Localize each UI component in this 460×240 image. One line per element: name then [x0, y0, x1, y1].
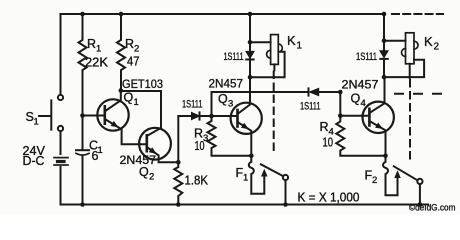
wire Q4 base column [339, 92, 341, 116]
svg-text:1: 1 [297, 41, 303, 52]
svg-text:Q: Q [139, 165, 149, 179]
wire C1 to bottom rail [82, 156, 84, 205]
transistor Q4 [363, 102, 394, 133]
wire top rail [61, 13, 385, 15]
node Q4 base [338, 113, 343, 118]
emitter arrows [111, 121, 385, 157]
svg-text:1S111: 1S111 [300, 101, 321, 113]
node K2 top [382, 12, 387, 17]
resistor R4 [336, 116, 385, 156]
svg-text:1: 1 [96, 44, 101, 55]
transistor Q1 [97, 99, 128, 130]
switch S1 [58, 95, 63, 100]
transistor Q2 [139, 128, 171, 160]
svg-text:K: K [424, 34, 433, 49]
svg-text:Q: Q [218, 92, 228, 106]
svg-text:1: 1 [243, 173, 248, 184]
node K1 top [248, 12, 253, 17]
wire Q4 emitter [369, 121, 385, 156]
wire Q4 collector [369, 77, 384, 113]
node Q1 collector [119, 88, 124, 93]
svg-text:2: 2 [149, 172, 154, 183]
node Q4 emitter [383, 153, 388, 158]
node K2 coil top [382, 38, 387, 43]
contact F1 [249, 156, 264, 194]
node 1.8K bottom [176, 202, 181, 207]
svg-text:Q: Q [124, 91, 134, 105]
node C1 bottom [80, 202, 85, 207]
svg-text:R: R [125, 37, 134, 51]
svg-text:©deIdG.com: ©deIdG.com [409, 202, 456, 212]
svg-text:R: R [320, 120, 329, 134]
wire Q3 collector [238, 77, 251, 114]
node CR3 right [338, 90, 343, 95]
wire Q1 emitter [105, 119, 147, 144]
dashed linkage extension right [395, 93, 441, 95]
relay K2 plunger stub [409, 64, 411, 78]
wire top rail dashed extension [392, 13, 443, 15]
diode CR1 1S111 [192, 112, 200, 119]
wire Q1 base lead [83, 115, 105, 117]
node R3 base [209, 114, 214, 119]
relay K1 plunger stub [273, 64, 275, 70]
wire R3 node to Q3 base [212, 115, 238, 117]
contact F2 [383, 156, 397, 196]
capacitor C1 [76, 149, 89, 151]
node F1 bottom [283, 202, 288, 207]
node K1 coil bottom [248, 75, 253, 80]
wire collector node to Q2 collector [121, 91, 161, 136]
svg-text:1: 1 [34, 117, 39, 128]
node Q3 emitter [249, 153, 254, 158]
wire K2 column to top rail [383, 14, 385, 41]
relay K2 coil [384, 40, 406, 42]
wire R4 node to Q4 base [340, 115, 369, 117]
dashed mechanical link K1 to F1 [273, 72, 275, 153]
wire left branch upper [60, 14, 62, 95]
arrow Q4 emitter [375, 123, 384, 132]
svg-text:1: 1 [134, 97, 139, 108]
transistor Q3 [231, 103, 262, 134]
wire interstage Q3 base to CR3 [212, 92, 309, 116]
svg-text:K = X 1,000: K = X 1,000 [298, 191, 360, 205]
svg-text:3: 3 [228, 99, 233, 110]
wire emitter node up to diode [178, 116, 191, 162]
node R2 top [119, 12, 124, 17]
svg-text:6: 6 [92, 149, 99, 163]
svg-text:R: R [87, 37, 96, 51]
wire K1 column to top rail [249, 14, 251, 42]
wire Q3 emitter [238, 122, 252, 156]
svg-text:2: 2 [372, 175, 377, 186]
svg-text:2N457: 2N457 [342, 78, 379, 92]
svg-text:1.8K: 1.8K [185, 174, 209, 188]
arrow Q3 emitter [241, 123, 251, 132]
relay K1 coil [250, 41, 271, 43]
diode CR2 1S111 shunt K1 [249, 42, 251, 77]
wire S1 to battery [60, 131, 62, 154]
battery 24V [54, 157, 68, 159]
resistor R3 [208, 116, 252, 156]
svg-text:1S111: 1S111 [356, 51, 377, 63]
diode CR3 1S111 [308, 88, 310, 95]
dashed mechanical link K2 to F2 [409, 80, 411, 161]
wire battery to bottom rail [60, 167, 62, 205]
node Q1 base [80, 113, 85, 118]
node K1 coil top [248, 40, 253, 45]
resistor R1 [79, 14, 87, 116]
arrow Q1 emitter [111, 121, 121, 130]
wire Q2 emitter [147, 147, 179, 162]
svg-text:10: 10 [195, 139, 205, 153]
node F2 bottom [418, 202, 423, 207]
svg-text:10: 10 [323, 136, 334, 150]
svg-text:1S111: 1S111 [224, 51, 244, 63]
svg-text:4: 4 [361, 98, 366, 109]
resistor R2 [117, 14, 125, 91]
wire bottom rail [61, 204, 429, 206]
svg-text:Q: Q [351, 92, 361, 106]
svg-text:2N457: 2N457 [120, 153, 157, 167]
node R1 top [80, 12, 85, 17]
svg-text:47: 47 [127, 55, 140, 69]
svg-text:1S111: 1S111 [182, 99, 203, 111]
resistor 1.8K [174, 162, 182, 204]
node Q2 emitter [176, 160, 181, 165]
svg-text:2: 2 [434, 42, 440, 53]
arrow Q2 emitter [149, 147, 159, 156]
svg-text:GET103: GET103 [122, 77, 163, 91]
wire R1/C1 column to C1 [82, 116, 84, 151]
svg-text:D-C: D-C [23, 154, 45, 168]
svg-text:22K: 22K [85, 56, 109, 70]
svg-text:2N457: 2N457 [209, 77, 244, 91]
wire Q1 collector [105, 91, 121, 112]
diode CR4 1S111 shunt K2 [383, 41, 385, 77]
node K2 coil bottom [382, 75, 387, 80]
svg-text:2: 2 [134, 44, 139, 55]
svg-text:K: K [287, 33, 296, 48]
